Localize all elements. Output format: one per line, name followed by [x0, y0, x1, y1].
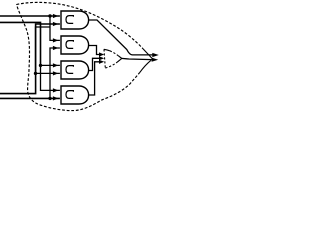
big outline bottom edge tail (solid) to lower output arrow — [140, 60, 152, 73]
big outline top edge tail (solid) to lower output arrow — [143, 49, 152, 59]
big dashed C-element outline (equivalent gate), top edge — [17, 2, 144, 49]
wire V1: A branch down to U2 pin1 — [50, 16, 60, 40]
input line C (bottom) riser to U1 pin2 — [0, 24, 60, 94]
small gate top edge solid tip — [119, 56, 122, 58]
small dashed C-element outline: top edge solid lead-in — [104, 49, 110, 51]
arrow into U3 pin1 — [53, 63, 58, 67]
arrow into small gate input 2 — [99, 56, 104, 60]
wire U2 output to small gate input 1 — [89, 46, 100, 55]
arrow into small gate input 3 — [99, 60, 104, 64]
arrow into small gate input 1 — [99, 52, 104, 56]
big dashed C-element outline, left and bottom edges — [17, 5, 140, 111]
junction dot D riser — [48, 97, 51, 100]
junction dot B/U3 pin1 — [39, 64, 42, 67]
wire jog: A branch to U3 pin2 — [36, 27, 60, 73]
input line B (top) — [0, 22, 41, 65]
small gate left edge dashes — [104, 49, 105, 68]
wire U1 output diagonal to upper output arrow — [89, 20, 153, 55]
C-element U4 — [61, 86, 89, 104]
input line D (bottom) — [0, 97, 60, 99]
wire V3 lower: B to U4 pin1 — [41, 65, 60, 90]
arrow into U3 pin2 — [53, 71, 58, 75]
arrow into U1 pin2 — [53, 22, 58, 26]
arrow into U4 pin1 — [53, 88, 58, 92]
junction dot A/V1 — [48, 14, 51, 17]
wire small gate output to lower output arrow — [122, 58, 152, 59]
wire D riser to U2 pin2 — [50, 48, 60, 98]
C-element U2 — [61, 36, 89, 54]
arrow into U1 pin1 — [53, 14, 58, 18]
arrow into U2 pin1 — [53, 38, 58, 42]
junction dot at U3 pin2 branch — [34, 72, 37, 75]
lower output arrow — [152, 58, 159, 62]
wire U3 output to small gate input 2 — [89, 58, 100, 70]
C-element U3 — [61, 61, 89, 79]
small gate bottom edge solid tip — [117, 58, 122, 62]
arrow into U2 pin2 — [53, 46, 58, 50]
small gate top edge dashes — [110, 51, 119, 56]
arrow into U4 pin2 — [53, 96, 58, 100]
wire V3: B down to U3 pin1 and U4 pin1 — [41, 64, 60, 66]
upper output arrow — [152, 53, 159, 57]
C-element U1 — [61, 11, 89, 29]
wire U4 output to small gate input 3 — [89, 62, 100, 95]
small gate bottom edge dashes — [105, 62, 117, 68]
input line A (top) — [0, 15, 60, 17]
